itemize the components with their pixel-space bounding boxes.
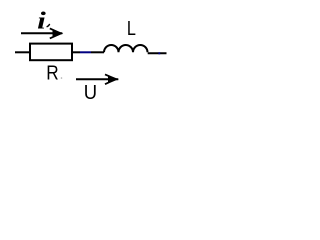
svg-text:i: i [37,8,46,35]
svg-text:U: U [84,81,97,104]
svg-text:R: R [46,62,58,85]
svg-text:L: L [127,16,136,39]
